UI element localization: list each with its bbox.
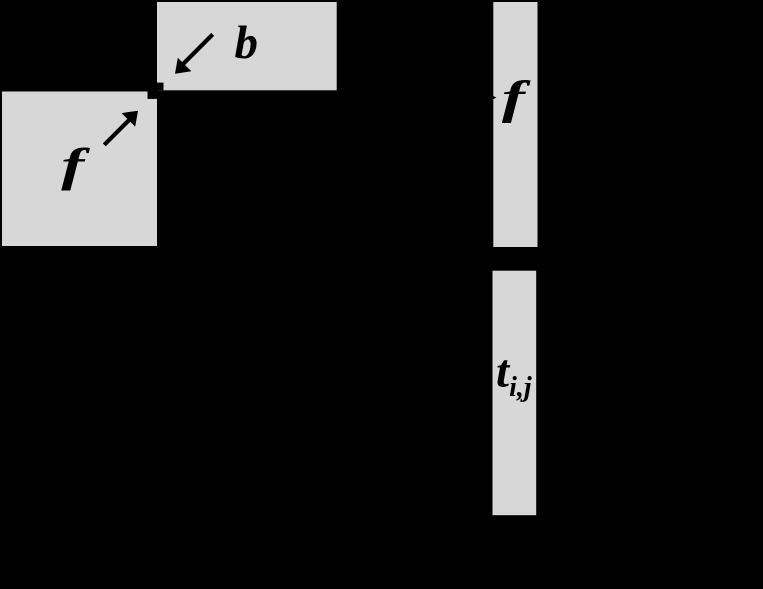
arrow to b pixel — [175, 34, 213, 73]
label f (in square) — [61, 138, 90, 190]
pixel notch in f (top-right corner) — [148, 92, 158, 99]
svg-text:b: b — [235, 17, 259, 69]
arrowhead tip at f bar edge — [490, 94, 496, 100]
arrow to f pixel — [104, 111, 138, 145]
pixel notch in b (bottom-left corner) — [157, 83, 164, 91]
square f (foreground patch) — [2, 92, 157, 247]
rectangle b (background patch) — [157, 2, 337, 90]
column vector t_ij (bottom right bar) — [493, 271, 537, 516]
column vector f (top right bar) — [493, 2, 537, 247]
label f (on bar) — [502, 71, 531, 123]
